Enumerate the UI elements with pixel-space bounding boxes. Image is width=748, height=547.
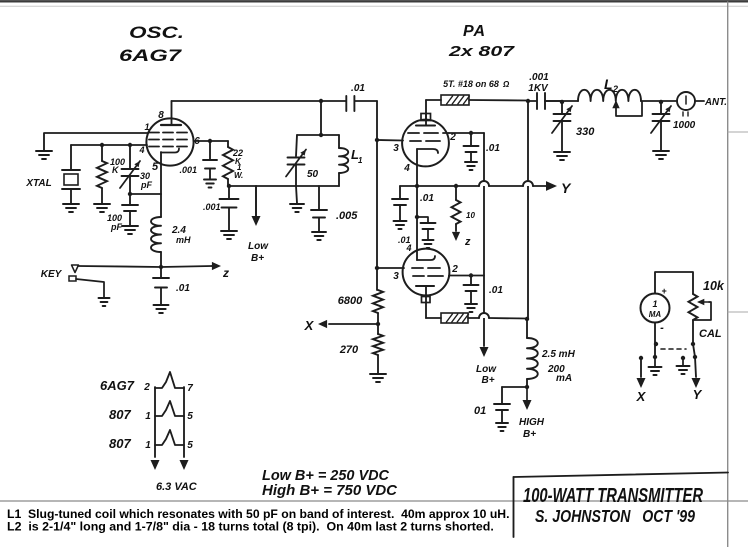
svg-text:B+: B+ <box>251 253 264 264</box>
svg-text:KEY: KEY <box>41 269 63 280</box>
svg-text:1: 1 <box>145 411 151 422</box>
svg-text:-: - <box>660 322 664 334</box>
svg-text:W.: W. <box>234 171 243 180</box>
svg-text:4: 4 <box>138 145 144 155</box>
svg-text:B+: B+ <box>523 429 536 440</box>
svg-text:10: 10 <box>466 211 475 220</box>
svg-text:10k: 10k <box>703 279 725 293</box>
svg-text:Ω: Ω <box>502 80 510 89</box>
svg-text:1: 1 <box>144 122 149 132</box>
svg-text:330: 330 <box>576 126 595 138</box>
svg-text:5: 5 <box>187 440 193 451</box>
svg-text:1: 1 <box>652 299 657 309</box>
svg-text:.005: .005 <box>336 210 358 222</box>
svg-text:1: 1 <box>145 440 151 451</box>
svg-text:mA: mA <box>556 373 572 384</box>
svg-text:.001: .001 <box>203 202 221 212</box>
svg-text:OSC.: OSC. <box>129 23 184 42</box>
svg-text:L: L <box>604 76 613 92</box>
svg-text:Low: Low <box>476 364 497 375</box>
svg-text:HIGH: HIGH <box>519 417 545 428</box>
svg-text:5T. #18 on 68: 5T. #18 on 68 <box>443 79 499 89</box>
svg-text:807: 807 <box>109 407 131 422</box>
svg-text:+: + <box>661 286 667 296</box>
svg-text:pF: pF <box>110 222 122 232</box>
svg-text:z: z <box>464 236 471 248</box>
svg-text:z: z <box>222 266 229 280</box>
svg-text:6AG7: 6AG7 <box>100 378 135 393</box>
svg-text:807: 807 <box>109 436 131 451</box>
svg-text:270: 270 <box>339 344 359 356</box>
svg-text:L2 is 2-1/4" long and 1-7/8": L2 is 2-1/4" long and 1-7/8" dia - 18 tu… <box>7 520 494 534</box>
svg-text:High B+ = 750 VDC: High B+ = 750 VDC <box>262 482 398 499</box>
svg-text:8: 8 <box>158 110 164 121</box>
svg-text:pF: pF <box>140 180 152 190</box>
svg-text:.01: .01 <box>489 285 503 296</box>
svg-text:.01: .01 <box>486 143 500 154</box>
svg-text:mH: mH <box>176 235 191 245</box>
svg-text:3: 3 <box>393 271 399 282</box>
svg-text:100-WATT TRANSMITTER: 100-WATT TRANSMITTER <box>523 485 703 507</box>
svg-text:2: 2 <box>612 84 618 94</box>
svg-text:1000: 1000 <box>673 120 696 131</box>
svg-text:.01: .01 <box>176 283 190 294</box>
svg-text:XTAL: XTAL <box>25 178 51 189</box>
svg-text:B+: B+ <box>481 375 494 386</box>
svg-text:Y: Y <box>561 180 572 196</box>
svg-text:3: 3 <box>393 143 399 154</box>
svg-text:.001: .001 <box>179 165 197 175</box>
svg-text:MA: MA <box>649 310 662 319</box>
svg-text:.01: .01 <box>420 193 434 204</box>
svg-text:X: X <box>304 318 315 333</box>
svg-text:4: 4 <box>403 163 410 174</box>
svg-text:50: 50 <box>307 169 319 180</box>
svg-text:6800: 6800 <box>338 295 363 307</box>
svg-text:2: 2 <box>143 382 150 393</box>
svg-text:PA: PA <box>463 23 486 40</box>
svg-text:4: 4 <box>405 243 411 253</box>
svg-text:5: 5 <box>152 161 159 173</box>
svg-text:6AG7: 6AG7 <box>119 46 183 65</box>
svg-text:1KV: 1KV <box>528 83 549 94</box>
svg-text:S. JOHNSTON OCT '99: S. JOHNSTON OCT '99 <box>535 506 695 526</box>
svg-text:ANT.: ANT. <box>704 97 727 108</box>
svg-text:Low: Low <box>248 241 269 252</box>
svg-text:2: 2 <box>451 264 458 275</box>
svg-text:7: 7 <box>187 383 193 394</box>
svg-text:.001: .001 <box>529 72 549 83</box>
svg-text:6.3 VAC: 6.3 VAC <box>156 481 198 493</box>
svg-text:2.5 mH: 2.5 mH <box>541 349 576 360</box>
svg-text:.01: .01 <box>351 83 365 94</box>
svg-text:1: 1 <box>358 156 363 165</box>
svg-text:5: 5 <box>187 411 193 422</box>
svg-text:Y: Y <box>693 387 703 402</box>
svg-text:01: 01 <box>474 405 486 417</box>
svg-text:2x 807: 2x 807 <box>448 43 515 60</box>
svg-text:X: X <box>636 389 647 404</box>
svg-text:CAL: CAL <box>699 328 722 340</box>
